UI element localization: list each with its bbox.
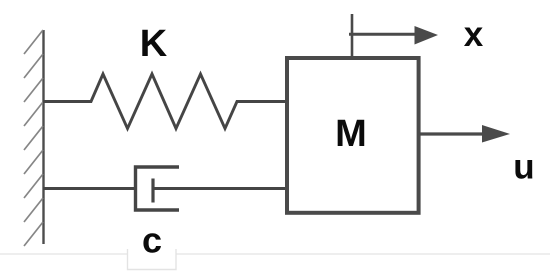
svg-text:x: x (464, 15, 484, 54)
x arrowhead (415, 26, 439, 45)
svg-text:K: K (140, 23, 168, 65)
bottom rule (0, 253, 550, 255)
damper piston (151, 179, 154, 203)
spring K (43, 74, 286, 129)
mass M box (287, 58, 419, 213)
svg-text:M: M (335, 113, 367, 155)
damper rod right (153, 187, 286, 190)
textbox outline around c (128, 249, 177, 270)
svg-text:u: u (513, 148, 534, 187)
x arrow stem (351, 14, 354, 58)
damper rod left (43, 187, 135, 190)
u arrow line (419, 132, 485, 135)
ground wall (24, 30, 44, 246)
svg-text:c: c (142, 220, 162, 261)
u arrowhead (482, 125, 510, 143)
damper cylinder (136, 167, 180, 210)
x arrow line (349, 33, 418, 36)
